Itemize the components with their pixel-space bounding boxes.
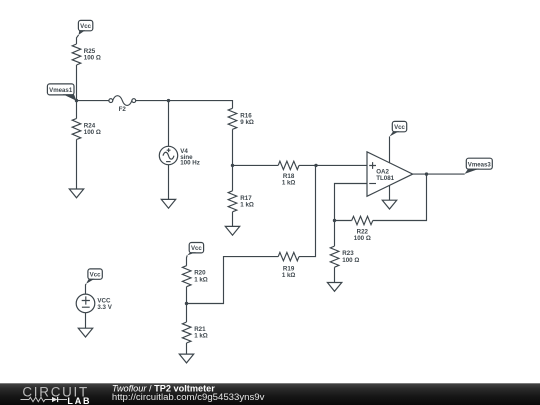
wire output down to R22 <box>373 174 427 220</box>
wire junction down to R23 <box>334 221 336 247</box>
resistor R20 <box>182 266 191 287</box>
svg-text:LAB: LAB <box>67 396 91 405</box>
resistor R23 <box>330 246 339 267</box>
svg-text:100 Hz: 100 Hz <box>180 160 200 167</box>
node Vmeas1 flag <box>47 84 76 101</box>
svg-text:Vcc: Vcc <box>394 124 405 131</box>
wire node to fuse <box>77 100 109 102</box>
resistor R25 <box>72 44 81 65</box>
source V4 sine <box>159 146 200 166</box>
wire R24 to ground <box>76 140 78 190</box>
ground under R23 <box>327 283 341 292</box>
ground under VCC <box>78 328 92 337</box>
svg-text:100 Ω: 100 Ω <box>84 129 101 136</box>
node feedback junction <box>333 219 336 222</box>
resistor R24 <box>72 119 81 140</box>
resistor R18 <box>278 161 299 169</box>
op-amp OA2 <box>367 152 413 197</box>
node Vcc flag for VCC source <box>86 269 102 284</box>
ground under R21 <box>179 354 193 363</box>
svg-text:http://circuitlab.com/c9g54533: http://circuitlab.com/c9g54533yns9v <box>112 392 265 403</box>
node R20 R21 junction <box>185 302 188 305</box>
wire R22 to feedback junction <box>335 220 352 222</box>
svg-text:Vcc: Vcc <box>90 272 101 279</box>
source VCC 3.3V <box>76 294 113 313</box>
resistor R17 <box>228 191 237 212</box>
node Vmeas3 flag <box>465 158 493 174</box>
ground under R17 <box>225 226 239 235</box>
svg-text:Vcc: Vcc <box>191 245 202 252</box>
resistor R19 <box>278 252 299 260</box>
svg-text:100 Ω: 100 Ω <box>354 235 371 242</box>
node Vcc flag for R25 <box>78 20 92 35</box>
svg-text:1 kΩ: 1 kΩ <box>194 333 208 340</box>
svg-text:1 kΩ: 1 kΩ <box>194 276 208 283</box>
ground under R24 <box>69 189 83 198</box>
wire R23 to ground <box>334 267 336 282</box>
wire VCC to ground <box>85 313 87 329</box>
svg-text:TL081: TL081 <box>376 175 394 182</box>
node R18 R19 junction <box>314 164 317 167</box>
node Vcc flag for R20 <box>187 243 203 256</box>
ground under op-amp <box>382 200 396 209</box>
wire R25 to node <box>76 65 78 119</box>
wire fuse to R16 corner <box>136 101 233 109</box>
wire V4 to ground <box>168 165 170 200</box>
fuse F2 <box>109 96 136 113</box>
svg-text:1 kΩ: 1 kΩ <box>282 272 296 279</box>
wire R18 to op-amp plus input <box>299 164 367 166</box>
resistor R16 <box>228 108 237 129</box>
svg-text:1 kΩ: 1 kΩ <box>240 202 254 209</box>
wire Vcc to VCC source <box>85 284 88 294</box>
wire R19 left to R20 junction <box>187 257 279 304</box>
svg-text:Vmeas3: Vmeas3 <box>468 161 492 168</box>
node Vmeas1 junction <box>75 99 78 102</box>
wire R17 to ground <box>232 212 234 227</box>
node Vcc flag for op-amp <box>390 121 407 136</box>
node output junction <box>425 172 428 175</box>
wire junction to V4 <box>168 101 170 147</box>
svg-text:9 kΩ: 9 kΩ <box>240 119 254 126</box>
wire junction up to op-amp minus input <box>335 184 368 221</box>
ground under V4 <box>161 199 175 208</box>
wire op-amp bottom to ground <box>389 185 391 200</box>
svg-text:100 Ω: 100 Ω <box>342 257 359 264</box>
wire op-amp output to Vmeas3 <box>413 173 465 175</box>
wire R20 to junction <box>186 287 188 322</box>
wire R16 to R17 <box>232 129 234 191</box>
wire Vcc to R25 <box>77 35 79 44</box>
footer bar <box>0 383 540 405</box>
resistor R21 <box>182 322 191 343</box>
wire R21 to ground <box>186 343 188 354</box>
wire Vcc to op-amp top <box>389 137 391 164</box>
svg-text:100 Ω: 100 Ω <box>84 55 101 62</box>
svg-text:F2: F2 <box>119 106 127 113</box>
node V4 junction <box>167 99 170 102</box>
resistor R22 <box>352 216 373 224</box>
svg-text:Vcc: Vcc <box>80 23 91 30</box>
wire Vcc to R20 <box>186 255 189 265</box>
svg-text:Vmeas1: Vmeas1 <box>49 87 73 94</box>
wire junction to R18 <box>233 164 279 166</box>
node R16 R17 R18 junction <box>231 164 234 167</box>
svg-text:3.3 V: 3.3 V <box>97 304 112 311</box>
wire R19 right up to R18 junction <box>299 165 316 256</box>
svg-text:1 kΩ: 1 kΩ <box>282 180 296 187</box>
